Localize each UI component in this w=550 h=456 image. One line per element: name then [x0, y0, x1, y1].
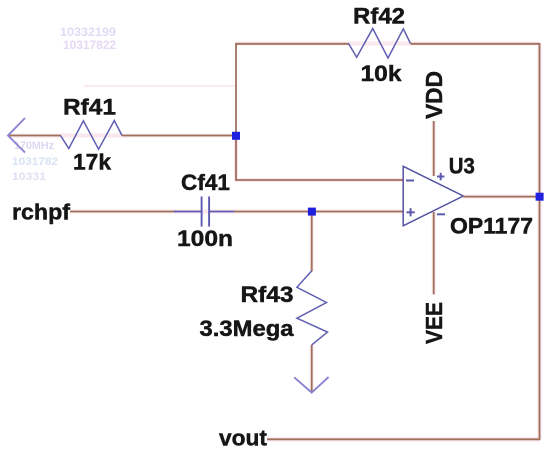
wire: VDD stub	[433, 121, 435, 176]
wire: op-amp output to node C	[463, 196, 539, 198]
capacitor Cf41	[174, 197, 234, 227]
svg-text:U3: U3	[449, 154, 475, 179]
op-amp positive supply plus sign	[437, 173, 444, 180]
ghost line	[84, 85, 236, 87]
wire: node A up to top rail	[235, 43, 237, 136]
svg-text:VDD: VDD	[421, 71, 447, 119]
node C junction square	[536, 193, 544, 201]
svg-text:Cf41: Cf41	[181, 170, 230, 195]
wire: node B down to Rf43	[311, 212, 313, 272]
svg-text:Rf42: Rf42	[353, 4, 405, 29]
wire: Cf41 to node B	[234, 211, 312, 213]
node A junction square	[232, 132, 240, 140]
wire: top rail right segment	[411, 43, 540, 45]
op-amp U3 triangle	[403, 166, 463, 226]
svg-text:10317822: 10317822	[63, 38, 116, 52]
svg-text:rchpf: rchpf	[12, 200, 71, 225]
ghost watermark text top-left	[60, 25, 116, 52]
op-amp non-inverting input plus sign	[407, 208, 415, 216]
ghost marks under input arrow	[12, 140, 58, 183]
svg-text:10332199: 10332199	[60, 25, 116, 39]
svg-text:17k: 17k	[73, 150, 112, 175]
input port arrow	[8, 118, 25, 153]
svg-text:10k: 10k	[361, 61, 403, 86]
wire: bottom rail to vout	[267, 438, 540, 440]
op-amp negative supply minus sign	[437, 213, 445, 215]
wire: right rail down to output node	[539, 43, 541, 197]
wire: node A down and right to op-amp inverting input	[236, 136, 403, 181]
resistor Rf41	[61, 121, 123, 150]
svg-text:vout: vout	[219, 426, 268, 451]
wire: top rail left segment	[235, 43, 349, 45]
svg-text:VEE: VEE	[421, 302, 447, 344]
wire: node B to op-amp non-inverting input	[312, 211, 403, 213]
node B junction square	[308, 208, 316, 216]
resistor Rf43	[297, 271, 328, 345]
wire: Rf41 to node A	[122, 135, 236, 137]
wire: input arrow to Rf41 left	[8, 135, 61, 137]
op-amp inverting input minus sign	[406, 180, 414, 182]
svg-text:OP1177: OP1177	[450, 214, 533, 239]
resistor Rf42	[349, 29, 411, 59]
wire: right rail down to bottom rail	[539, 197, 541, 440]
svg-text:10331: 10331	[12, 171, 46, 183]
wire: rchpf to Cf41	[70, 211, 176, 213]
svg-text:Rf41: Rf41	[63, 95, 116, 120]
svg-text:1031782: 1031782	[12, 156, 58, 168]
svg-text:3.3Mega: 3.3Mega	[200, 316, 295, 341]
wire: Rf43 to ground arrow	[311, 345, 313, 392]
ground arrow	[294, 377, 328, 393]
svg-text:170MHz: 170MHz	[14, 140, 54, 152]
svg-text:Rf43: Rf43	[241, 282, 294, 307]
wire: VEE stub	[433, 212, 435, 294]
svg-text:100n: 100n	[177, 226, 233, 251]
